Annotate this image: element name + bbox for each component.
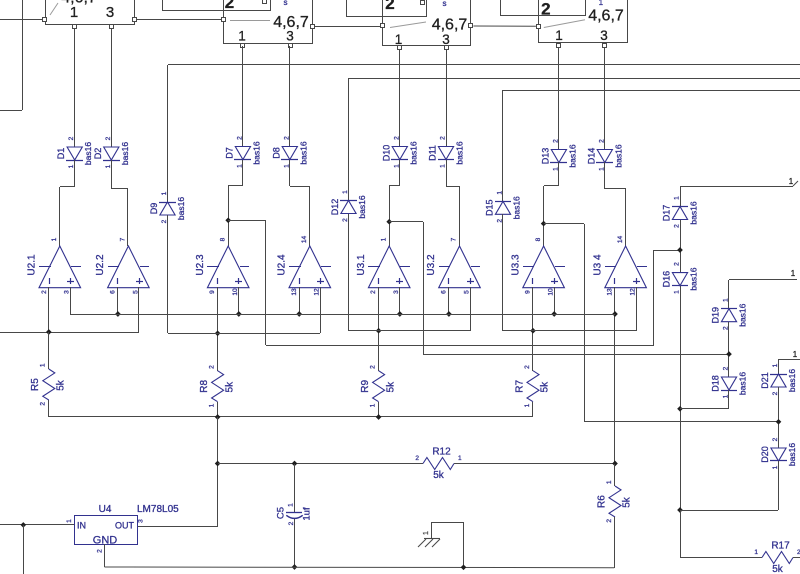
svg-text:D8: D8: [271, 147, 281, 159]
wire K3.3 to D11: [446, 50, 448, 146]
svg-text:8: 8: [535, 237, 542, 241]
svg-text:bas16: bas16: [787, 369, 797, 392]
capacitor C5: [276, 503, 313, 526]
svg-text:1: 1: [674, 290, 681, 294]
junction dot D20 node: [677, 507, 683, 513]
wire U3.3-out branch: [544, 224, 778, 423]
diode D11: [428, 136, 465, 168]
svg-text:2: 2: [552, 139, 559, 143]
svg-text:5k: 5k: [540, 381, 551, 393]
svg-text:5k: 5k: [622, 496, 633, 508]
svg-text:D14: D14: [586, 148, 596, 165]
resistor R8: [199, 365, 235, 408]
diode D21: [760, 363, 797, 395]
svg-text:D20: D20: [760, 446, 770, 463]
svg-text:D11: D11: [428, 145, 438, 161]
junction dot U2.3 out: [225, 217, 231, 223]
svg-text:R9: R9: [360, 379, 371, 392]
svg-text:14: 14: [617, 236, 624, 244]
wire U3.3 in+: [554, 287, 556, 314]
wire R17 right: [793, 557, 800, 559]
svg-text:6: 6: [109, 290, 116, 294]
wire K1.1 to D1: [74, 28, 76, 147]
junction dot: [215, 414, 221, 420]
junction dot D21/D20: [776, 419, 782, 425]
svg-text:2: 2: [105, 136, 112, 140]
wire D7 to U2.3 out: [228, 160, 243, 246]
svg-text:D19: D19: [711, 307, 721, 324]
wire U2.3 in- to R8: [217, 287, 219, 371]
wire stub bottom-left: [23, 525, 25, 574]
svg-text:s: s: [443, 0, 447, 8]
wire K2.1 to D7: [242, 46, 244, 146]
wire U3.4 in+: [636, 287, 638, 331]
diode D8: [271, 136, 308, 168]
svg-text:R6: R6: [596, 495, 607, 508]
svg-text:5k: 5k: [224, 381, 235, 393]
svg-text:1: 1: [423, 531, 430, 535]
svg-text:12: 12: [314, 288, 321, 296]
diode D7: [224, 136, 261, 168]
junction dot: [215, 461, 221, 467]
wire D14 to U3.4 out: [605, 162, 627, 246]
wire y=331 group3: [348, 330, 470, 332]
svg-text:bas16: bas16: [787, 443, 797, 466]
svg-text:1: 1: [51, 237, 58, 241]
wire D19-D18: [728, 322, 730, 377]
svg-text:bas16: bas16: [567, 144, 577, 167]
diode D18: [711, 366, 748, 398]
relay K3 contact pin 1: [398, 46, 402, 50]
svg-text:U3 4: U3 4: [592, 254, 603, 276]
relay K2 contact box: [224, 0, 313, 44]
svg-text:2: 2: [723, 366, 730, 370]
svg-text:10: 10: [548, 288, 555, 296]
bus wire y=78: [348, 78, 800, 80]
junction dot: [115, 311, 121, 317]
svg-text:2: 2: [40, 402, 47, 406]
svg-text:1uf: 1uf: [302, 507, 313, 521]
relay K4 contact pin 3: [603, 44, 607, 48]
diode D14: [586, 139, 623, 171]
svg-text:2: 2: [674, 262, 681, 266]
junction dot U3.1 out: [386, 219, 392, 225]
relay K4 pin left: [537, 25, 541, 29]
relay K2 contact pin 3: [289, 44, 293, 48]
pin label 1: [789, 177, 794, 186]
svg-text:4,6,7: 4,6,7: [432, 17, 468, 34]
svg-text:D13: D13: [540, 148, 550, 165]
relay K3 pin left: [381, 24, 385, 28]
svg-text:13: 13: [607, 288, 614, 296]
svg-text:D7: D7: [224, 147, 234, 159]
junction dot IN: [20, 522, 26, 528]
wire bus x=503 upper: [502, 90, 504, 201]
wire K2.3 to D8: [289, 46, 291, 146]
svg-text:R5: R5: [30, 378, 41, 391]
relay K2 pin right: [311, 25, 315, 29]
junction dot: [376, 414, 382, 420]
svg-text:2: 2: [209, 365, 216, 369]
wire D1 to U2.1 out: [60, 160, 76, 246]
svg-text:bas16: bas16: [298, 141, 308, 164]
wire R7 bottom: [532, 402, 534, 417]
svg-text:12: 12: [630, 288, 637, 296]
wire top right feed: [680, 181, 798, 187]
junction dot: [612, 311, 618, 317]
wire R5 top: [48, 332, 50, 417]
wire D19 feed: [729, 279, 797, 281]
svg-text:3: 3: [600, 28, 608, 43]
svg-text:U3.1: U3.1: [356, 254, 367, 276]
svg-text:2: 2: [41, 290, 48, 294]
wire U3.1 in+: [399, 287, 401, 314]
svg-text:U2.1: U2.1: [27, 254, 38, 276]
junction dot: [530, 328, 536, 334]
resistor R9: [360, 365, 396, 408]
wire K1.3 to D2: [111, 28, 113, 147]
wire U3.4 in- down: [614, 287, 616, 464]
wire U2.2 in+: [138, 287, 140, 332]
svg-text:U2.4: U2.4: [277, 254, 288, 276]
svg-text:3: 3: [106, 4, 114, 21]
op-amp U2.2: [95, 237, 149, 294]
svg-text:2: 2: [674, 224, 681, 228]
svg-text:1: 1: [161, 191, 168, 195]
wire x680 bottom: [680, 510, 682, 558]
wire D21 top: [778, 360, 780, 374]
svg-text:bas16: bas16: [176, 197, 186, 220]
voltage regulator U4: [66, 504, 179, 553]
relay K4 name fragment: [599, 0, 604, 7]
diode D15: [485, 191, 522, 223]
relay K3 contact pin 3: [445, 46, 449, 50]
wire D19 top: [728, 280, 730, 309]
op-amp U3.4: [592, 236, 647, 296]
svg-text:1: 1: [440, 164, 447, 168]
svg-text:5k: 5k: [433, 470, 445, 481]
svg-text:2: 2: [606, 519, 613, 523]
pin label 1: [791, 269, 796, 278]
svg-text:1: 1: [793, 350, 798, 359]
svg-text:bas16: bas16: [357, 195, 367, 218]
op-amp U3.2: [426, 237, 480, 294]
wire D8 to U2.4 out: [290, 160, 311, 246]
wire bus x=503 lower: [502, 214, 504, 331]
svg-text:2: 2: [772, 437, 779, 441]
wire R8 node down to OUT: [137, 417, 218, 527]
svg-text:1: 1: [772, 363, 779, 367]
svg-text:9: 9: [209, 290, 216, 294]
wire K4.1 to D13: [558, 47, 560, 150]
svg-text:R17: R17: [771, 541, 790, 552]
svg-text:R8: R8: [199, 379, 210, 392]
wire U3.2 in+: [470, 287, 472, 331]
svg-text:bas16: bas16: [512, 196, 522, 219]
wire U3.3 in- to R7: [532, 287, 534, 371]
relay K1 contact pin 1: [73, 25, 77, 29]
diode D2: [93, 136, 130, 168]
wire D17-D16: [680, 220, 682, 273]
bus wire y=314: [70, 314, 615, 316]
wire K4.3 to D14: [604, 47, 606, 150]
wire stub top-left horizontal: [0, 110, 22, 112]
diode D19: [711, 298, 748, 330]
wire D13 to U3.3 out: [544, 162, 560, 246]
diode D13: [540, 139, 577, 171]
svg-text:bas16: bas16: [613, 144, 623, 167]
resistor R6: [596, 480, 632, 523]
svg-text:1: 1: [497, 191, 504, 195]
relay K4 contact box: [539, 0, 628, 43]
svg-text:2: 2: [541, 0, 550, 19]
svg-text:2: 2: [283, 136, 290, 140]
ground symbol: [418, 531, 440, 547]
svg-text:7: 7: [120, 237, 127, 241]
relay K1 contact box: [46, 0, 135, 25]
op-amp U3.3: [510, 237, 565, 295]
svg-text:D2: D2: [93, 148, 103, 160]
resistor R7: [514, 365, 550, 408]
svg-text:D1: D1: [56, 148, 66, 160]
wire D16 down: [680, 286, 682, 510]
relay K4 coil box: [501, 0, 586, 19]
diode D10: [381, 136, 418, 168]
svg-text:1: 1: [66, 519, 73, 523]
svg-text:1: 1: [380, 237, 387, 241]
svg-text:1: 1: [458, 455, 462, 462]
junction dot: [376, 328, 382, 334]
svg-text:1: 1: [606, 480, 613, 484]
junction dot C5 bottom: [292, 564, 298, 570]
wire D2 to U2.2 out: [111, 160, 128, 246]
diode D1: [56, 136, 93, 168]
svg-text:bas16: bas16: [83, 142, 93, 165]
diode D9: [149, 191, 186, 223]
svg-text:2: 2: [225, 0, 234, 12]
junction dot: [215, 330, 221, 336]
wire D21-D20: [778, 387, 780, 448]
svg-text:1: 1: [395, 32, 403, 47]
junction dot D19/D18: [726, 351, 732, 357]
svg-text:4,6,7: 4,6,7: [61, 0, 97, 7]
svg-text:2: 2: [370, 290, 377, 294]
bus wire bottom: [105, 566, 615, 569]
svg-text:1: 1: [772, 465, 779, 469]
wire U2.1 in+ to bus: [70, 287, 72, 314]
svg-text:2: 2: [772, 391, 779, 395]
junction dot: [236, 311, 242, 317]
svg-text:1: 1: [674, 196, 681, 200]
svg-text:1: 1: [105, 164, 112, 168]
svg-text:2: 2: [370, 365, 377, 369]
wire bus x=168 lower: [167, 215, 169, 333]
relay K2 coil pin: [263, 0, 267, 4]
wire U2.4 in+: [320, 287, 322, 333]
wire to R17: [680, 557, 762, 559]
svg-text:OUT: OUT: [115, 521, 135, 531]
wire R8 bottom: [217, 402, 219, 417]
wire D21 feed: [778, 359, 800, 361]
wire left edge to K1: [0, 19, 43, 21]
svg-text:2: 2: [385, 0, 394, 13]
junction dot C5 top: [292, 461, 298, 467]
svg-text:1: 1: [791, 269, 796, 278]
relay K2 coil box: [163, 0, 271, 12]
svg-text:1: 1: [40, 363, 47, 367]
wire U4 GND: [104, 544, 106, 567]
junction dot: [446, 311, 452, 317]
svg-text:5k: 5k: [56, 379, 67, 391]
junction dot gnd: [461, 564, 467, 570]
wire U2.3 in+: [238, 287, 240, 314]
svg-text:U2.2: U2.2: [95, 254, 106, 276]
resistor R5: [30, 363, 66, 406]
svg-text:14: 14: [301, 236, 308, 244]
relay K4 contact pin 1: [557, 44, 561, 48]
svg-text:2: 2: [393, 136, 400, 140]
relay K3 coil pin: [421, 1, 425, 5]
wire U3.1 in- to R9: [378, 287, 380, 371]
diode D20: [760, 437, 797, 469]
wire U2.4 in-: [299, 287, 301, 314]
relay K1 pin 1 (left): [43, 18, 47, 22]
svg-text:5k: 5k: [385, 381, 396, 393]
bus wire y=90: [503, 90, 800, 92]
relay K1 pin 3 (right): [133, 18, 137, 22]
svg-text:2: 2: [97, 549, 104, 553]
svg-text:D10: D10: [381, 145, 391, 162]
svg-text:13: 13: [291, 288, 298, 296]
svg-text:2: 2: [161, 219, 168, 223]
svg-text:bas16: bas16: [120, 142, 130, 165]
wire R6 top: [614, 464, 616, 486]
svg-text:1: 1: [238, 29, 246, 44]
junction dot: [296, 311, 302, 317]
wire D18 bottom: [680, 390, 729, 409]
junction dot R5 node: [46, 329, 52, 335]
op-amp U3.1: [356, 237, 410, 294]
bus wire y=463: [218, 463, 615, 465]
wire D20 bottom: [680, 461, 779, 511]
svg-text:D18: D18: [711, 375, 721, 392]
svg-text:2: 2: [598, 139, 605, 143]
svg-text:5: 5: [463, 290, 470, 294]
svg-text:bas16: bas16: [689, 201, 699, 224]
svg-text:bas16: bas16: [251, 141, 261, 164]
svg-text:U2.3: U2.3: [195, 254, 206, 276]
relay K3 coil box: [347, 0, 427, 17]
svg-text:C5: C5: [276, 507, 287, 519]
diode D12: [330, 190, 367, 222]
wire D10 to U3.1 out: [389, 160, 400, 246]
svg-text:GND: GND: [93, 535, 118, 547]
wire U2.2 in-: [117, 287, 119, 314]
svg-text:3: 3: [64, 290, 71, 294]
relay K3 contact box: [383, 0, 471, 47]
svg-text:U4: U4: [99, 504, 112, 515]
relay K2 contact pin 1: [241, 44, 245, 48]
svg-text:D9: D9: [149, 203, 159, 215]
wire gnd branch: [432, 522, 465, 567]
wire U2.3-out branch: [228, 220, 680, 346]
junction dot U3.3 out: [541, 221, 547, 227]
pin label 1: [793, 350, 798, 359]
wire K3.1 to D10: [399, 50, 401, 146]
svg-text:5k: 5k: [772, 564, 784, 574]
svg-text:1: 1: [70, 4, 78, 21]
svg-text:D15: D15: [485, 200, 495, 217]
svg-text:2: 2: [415, 455, 419, 462]
svg-text:1: 1: [723, 298, 730, 302]
svg-text:LM78L05: LM78L05: [137, 504, 179, 515]
relay K2 pin left: [222, 18, 226, 22]
relay K3 name fragment: [443, 0, 447, 8]
wire K2 to K3: [314, 26, 380, 28]
relay K1 contact pin 3: [110, 25, 114, 29]
svg-text:IN: IN: [77, 521, 86, 531]
bus wire y=64: [168, 64, 800, 66]
svg-text:2: 2: [288, 521, 295, 525]
wire stub top-left vertical: [22, 0, 24, 110]
wire y=331 group4: [503, 330, 636, 332]
svg-text:bas16: bas16: [689, 267, 699, 290]
svg-text:bas16: bas16: [455, 141, 465, 164]
junction dot R6 top: [612, 461, 618, 467]
junction dot D18 node: [677, 406, 683, 412]
svg-text:R7: R7: [514, 379, 525, 392]
wire bus x=349 lower: [348, 214, 350, 331]
svg-text:2: 2: [524, 365, 531, 369]
svg-text:1: 1: [789, 177, 794, 186]
wire D17 top: [680, 186, 682, 206]
svg-text:2: 2: [440, 136, 447, 140]
resistor R12: [415, 447, 462, 482]
svg-text:9: 9: [525, 290, 532, 294]
wire U3.2 in-: [448, 287, 450, 314]
svg-text:1: 1: [524, 403, 531, 407]
wire R9 bottom: [378, 402, 380, 417]
junction dot: [397, 311, 403, 317]
wire K3 to K4: [473, 25, 536, 27]
svg-text:1: 1: [599, 0, 604, 7]
svg-text:8: 8: [219, 237, 226, 241]
resistor R17: [754, 541, 800, 574]
wire y=332 group1: [0, 332, 139, 334]
wire K1 to K2: [136, 19, 221, 21]
svg-text:R12: R12: [432, 447, 451, 458]
svg-text:2: 2: [236, 136, 243, 140]
svg-text:2: 2: [342, 218, 349, 222]
svg-text:1: 1: [288, 503, 295, 507]
wire D11 to U3.2 out: [446, 160, 460, 246]
diode D17: [662, 196, 699, 228]
svg-text:bas16: bas16: [738, 303, 748, 326]
wire U3.1-out branch: [389, 222, 729, 355]
op-amp U2.1: [27, 237, 82, 294]
diode D16: [662, 262, 699, 294]
relay K2 name fragment: [284, 0, 288, 7]
svg-text:bas16: bas16: [738, 372, 748, 395]
svg-text:3: 3: [286, 29, 294, 44]
svg-text:U3.2: U3.2: [426, 254, 437, 276]
svg-text:bas16: bas16: [408, 141, 418, 164]
svg-text:D12: D12: [330, 199, 340, 216]
svg-text:D16: D16: [662, 271, 672, 288]
junction dot D17/D16: [677, 247, 683, 253]
svg-text:s: s: [284, 0, 288, 7]
svg-text:U3.3: U3.3: [510, 254, 521, 276]
